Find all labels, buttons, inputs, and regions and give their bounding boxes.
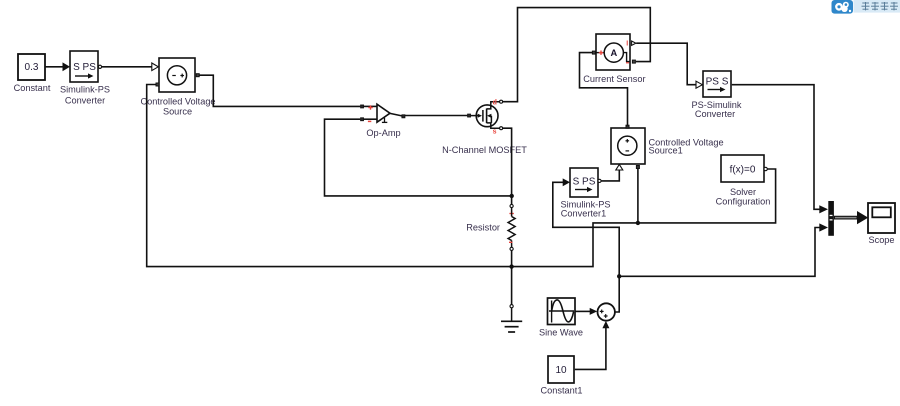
svg-text:PS S: PS S [706,77,729,88]
block Solver Configuration U8 [716,155,771,207]
node junction CVS1 on rail [636,221,640,225]
op-amp U3 [361,104,405,138]
svg-text:Source1: Source1 [649,146,683,156]
block Simulink-PS Converter1 U7 [560,168,610,218]
svg-text:Resistor: Resistor [466,222,500,232]
svg-text:Source: Source [163,107,192,117]
wire Op-Amp output to MOSFET gate [405,115,468,117]
wire resistor bottom to rail and ground [511,251,513,305]
wire Op-Amp - input feedback from node at resistor top [325,119,512,196]
resistor R1 [466,204,515,250]
ground electrical reference [501,305,522,332]
block PS-Simulink Converter U5 [691,71,741,119]
wire Sum branch to Mux input 2 [619,223,828,276]
transistor Q1 N-Channel MOSFET [442,99,527,155]
svg-text:10: 10 [555,365,567,376]
svg-text:Current Sensor: Current Sensor [583,74,645,84]
svg-text:Configuration: Configuration [716,197,771,207]
node junction resistor to rail [509,264,513,268]
svg-text:Converter: Converter [65,96,105,106]
svg-text:s: s [493,128,497,135]
wire Controlled Voltage Source1 - port down to rail [637,169,639,223]
svg-text:Constant: Constant [14,83,51,93]
node junction Sum output branch [617,274,621,278]
wire Sine Wave to Sum [576,308,598,315]
wire Sum output up to Simulink-PS Converter1 input [553,178,619,312]
ammeter U4 Current Sensor [583,34,645,84]
block Simulink-PS Converter U1 [60,51,110,106]
wire MOSFET drain loop to Current Sensor - port [503,8,651,102]
node junction at feedback tap [510,194,514,198]
voltage source U6 Controlled Voltage Source1 [611,125,724,168]
svg-text:0.3: 0.3 [25,62,39,73]
svg-text:S PS: S PS [73,62,96,73]
svg-text:d: d [493,99,497,106]
svg-text:Constant1: Constant1 [541,386,583,396]
wire Constant1 to Sum bottom input [575,321,610,370]
svg-text:Scope: Scope [868,235,894,245]
wire Current Sensor I output to PS-Simulink Converter (PS signal) [636,43,702,88]
svg-text:S PS: S PS [573,176,596,187]
svg-text:f(x)=0: f(x)=0 [730,164,756,175]
wire PS-Simulink Converter to Mux input 1 [732,85,828,214]
wire Current Sensor + to Controlled Voltage Source1 top [580,53,628,126]
watermark upload icon [832,0,854,14]
wire MOSFET source down to resistor [503,128,512,204]
block Constant [14,54,51,93]
svg-text:A: A [610,48,617,58]
wire Constant to Simulink-PS Converter [46,62,71,71]
svg-text:Solver: Solver [730,187,756,197]
mux Mux1 [828,201,834,236]
wire Simulink-PS Converter to Controlled Voltage Source (PS signal) [102,63,159,71]
block Sine Wave [539,298,583,337]
voltage source U2 Controlled Voltage Source [140,58,215,117]
svg-text:Simulink-PS: Simulink-PS [60,85,110,95]
wire Simulink-PS Converter1 to Controlled Voltage Source1 control input (PS signal) [601,164,623,181]
svg-text:I: I [626,40,628,47]
summer Sum [598,303,615,320]
wire Controlled Voltage Source output to Op-Amp + input [199,75,360,106]
svg-text:Controlled Voltage: Controlled Voltage [140,97,215,107]
svg-text:Converter1: Converter1 [561,208,606,218]
block Scope [868,203,895,245]
svg-text:Op-Amp: Op-Amp [366,128,400,138]
svg-text:Sine Wave: Sine Wave [539,327,583,337]
svg-text:Converter: Converter [695,109,735,119]
block Constant1 [541,356,583,396]
watermark text pill [854,0,900,13]
svg-text:N-Channel MOSFET: N-Channel MOSFET [442,145,527,155]
wire electrical rail (bottom net) [147,85,776,267]
wire Mux to Scope (vector signal) [834,211,868,224]
